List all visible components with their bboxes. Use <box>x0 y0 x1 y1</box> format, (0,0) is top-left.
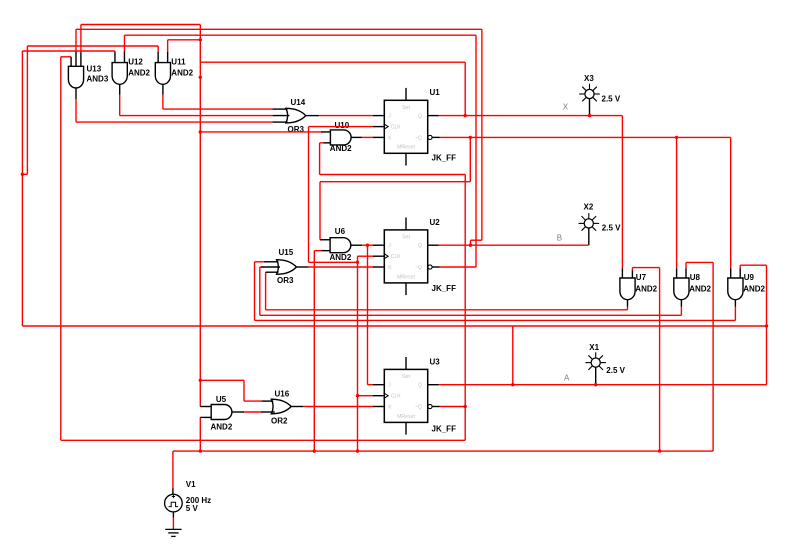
wire net ~Q1 drop to U8 input 1 <box>676 137 678 268</box>
svg-text:AND2: AND2 <box>211 423 233 432</box>
wire U7 output to U15 input 3 <box>627 307 629 310</box>
junction Q3 x22 with U11 branch <box>21 173 24 176</box>
pin stub U10 input 1 <box>321 131 331 133</box>
wire net Q3 long horizontal y326 <box>22 325 766 327</box>
pin stub U9 input 2 <box>739 268 741 278</box>
svg-text:Set: Set <box>402 374 411 380</box>
svg-text:X2: X2 <box>584 203 594 212</box>
wire net Q3 branch vertical x27 <box>26 46 28 174</box>
pin Reset (bottom) of U3 <box>405 422 407 434</box>
wire net Q1 drop to U7 input 1 <box>621 116 623 269</box>
gate body U6 AND2 <box>330 238 351 253</box>
pin J stub of U2 <box>373 244 384 246</box>
svg-text:2.5 V: 2.5 V <box>606 366 625 375</box>
wire clock net: V1 riser <box>172 451 174 488</box>
gate body U13 AND3 <box>68 66 83 88</box>
pin stub V1 negative terminal <box>172 512 174 518</box>
wire clock rail y451 <box>173 450 713 452</box>
wire U6 output to U2 J <box>362 244 373 246</box>
svg-text:U9: U9 <box>744 273 755 282</box>
pin stub U5 input 2 <box>200 416 211 418</box>
svg-text:U16: U16 <box>275 390 290 399</box>
gate body U14 OR3 <box>286 108 306 123</box>
wire U5 output to U16 input 2 <box>244 411 261 413</box>
lamp X1 lead wire <box>595 367 597 385</box>
pin Q stub of U1 <box>428 115 439 117</box>
svg-text:U14: U14 <box>291 98 306 107</box>
svg-text:AND2: AND2 <box>171 69 193 78</box>
wire net ~Q1 drop x470 to y182 <box>469 137 471 181</box>
wire V1 to ground <box>172 518 174 529</box>
svg-text:U12: U12 <box>128 57 143 66</box>
wire net ~Q1: U1.~Q line to U8/U9 <box>440 136 731 138</box>
pin Reset (bottom) of U1 <box>405 153 407 165</box>
pin Q stub of U3 <box>428 384 439 386</box>
svg-text:U15: U15 <box>279 248 294 257</box>
V1 square wave glyph <box>169 502 179 506</box>
wire U8 output to U15 input 2 <box>680 307 682 316</box>
wire net ~Q3 riser x465 (from U10 input 2) down to rail <box>464 175 466 441</box>
svg-text:AND3: AND3 <box>87 75 109 84</box>
gate body U9 AND2 <box>728 278 743 300</box>
junction clock rail at U7 input 2 <box>658 449 661 452</box>
svg-text:U7: U7 <box>636 273 647 282</box>
svg-text:MReset: MReset <box>397 274 415 280</box>
indicator lamp X2 2.5V <box>584 219 593 228</box>
wire net Q3 drop into U11 input 1 <box>157 46 159 52</box>
svg-text:A: A <box>564 374 570 383</box>
pin stub U12 input 1 <box>114 52 116 63</box>
wire net ~Q1 horizontal y182 <box>320 181 470 183</box>
wire net Q3 branch jog to x27 <box>22 173 27 175</box>
svg-text:2.5 V: 2.5 V <box>602 224 621 233</box>
pin Set (top) of U3 <box>405 357 407 369</box>
pin stub U11 input 2 <box>167 52 169 63</box>
wire net Q2: U2.Q line to lamp X2 <box>439 244 589 246</box>
svg-text:X1: X1 <box>589 343 599 352</box>
svg-text:U8: U8 <box>690 273 701 282</box>
svg-text:Set: Set <box>402 235 411 241</box>
junction ~Q1 at x470 (return path) <box>469 136 472 139</box>
wire net Q2 jog up <box>470 240 472 245</box>
wire net Q3 y46 to U11 input 1 <box>27 45 158 47</box>
wire clock hook U8 input 2 <box>686 261 713 263</box>
svg-text:U3: U3 <box>430 357 441 366</box>
junction V200 y40 (U11 input 2 tap) <box>199 38 202 41</box>
svg-text:V1: V1 <box>186 480 196 489</box>
wire clock hook U7 input 2 <box>632 267 659 269</box>
pin stub U12 output <box>119 84 121 94</box>
svg-text:CLK: CLK <box>391 125 401 131</box>
pin stub U15 input 2 <box>261 266 280 268</box>
pin stub U16 input 1 <box>262 400 274 402</box>
svg-text:X3: X3 <box>584 74 594 83</box>
wire U14 output to U1 J <box>306 115 319 117</box>
wire net ~Q3 riser to U10 input 2 <box>319 143 321 175</box>
svg-text:CLK: CLK <box>391 254 401 260</box>
wire U10 output to U1 K <box>362 136 373 138</box>
wire U12 output to U14 input 2 <box>119 95 121 116</box>
pin stub U8 input 1 <box>676 268 678 278</box>
wire net Q1: U1.Q output line to lamp X3 and U7 <box>439 115 623 117</box>
svg-text:AND2: AND2 <box>330 144 352 153</box>
pin CLK stub of U2 <box>373 255 384 257</box>
junction V200 y132 (U10 input 1 tap) <box>199 130 202 133</box>
svg-text:AND2: AND2 <box>743 284 765 293</box>
svg-text:AND2: AND2 <box>689 284 711 293</box>
svg-text:U13: U13 <box>87 65 102 74</box>
CLK edge triangle of U2 <box>384 253 389 259</box>
wire clock into U3 CLK <box>358 395 374 397</box>
wire U6 output drop to U3 J <box>367 245 369 385</box>
pin stub U13 input 2 <box>75 51 77 66</box>
junction Q1 at riser x465 <box>464 114 467 117</box>
pin stub U6 input 1 <box>320 239 330 241</box>
pin stub U15 input 1 <box>264 261 278 263</box>
junction clock x357 at U3 CLK <box>356 394 359 397</box>
svg-text:~Q: ~Q <box>415 135 422 141</box>
pin K stub of U2 <box>373 266 384 268</box>
gate body U7 AND2 <box>620 278 635 300</box>
indicator lamp X1 2.5V <box>591 358 600 367</box>
svg-text:JK_FF: JK_FF <box>432 424 457 433</box>
pin K stub of U1 <box>373 136 384 138</box>
wire net ~Q1 drop to U6 input 1 <box>319 182 321 240</box>
pin ~Q bubble and stub of U1 <box>428 135 432 139</box>
wire U15 output to U2 K <box>308 266 373 268</box>
pin stub U7 input 2 <box>631 271 633 279</box>
pin Set (top) of U2 <box>405 218 407 230</box>
pin stub U7 output <box>627 300 629 307</box>
pin Q stub of U2 <box>428 244 439 246</box>
indicator lamp X3 2.5V <box>585 89 594 98</box>
wire net ~Q2 drop into U12 input 2 <box>123 35 125 51</box>
wire clock vertical x357 (FF clocks) <box>357 256 359 451</box>
svg-text:AND2: AND2 <box>635 284 657 293</box>
junction V200 y380 (U16 input 1 tap) <box>199 379 202 382</box>
junction Q3 at lamp X1 <box>594 383 597 386</box>
wire net ~Q2 top horizontal y35 to U12 input 2 <box>124 34 476 36</box>
wire net Q3 riser x766 up to U9 input 2 hook <box>766 265 768 385</box>
wire net Q1 long vertical V200 x200 <box>199 25 201 407</box>
svg-text:OR2: OR2 <box>271 416 288 425</box>
pin stub U14 input 3 <box>273 121 288 123</box>
svg-text:U11: U11 <box>171 57 186 66</box>
wire clock riser x308 to U1 CLK <box>308 127 310 263</box>
wire net Q1 riser x465 up to y62 <box>464 62 466 115</box>
pin stub U6 input 2 <box>322 250 331 252</box>
svg-text:U1: U1 <box>430 88 441 97</box>
pin ~Q bubble and stub of U2 <box>428 265 432 269</box>
wire U13 output to U14 input 3 <box>75 99 77 122</box>
pin stub U10 input 2 <box>324 142 331 144</box>
wire net Q2 drop into U13 input 2 <box>75 29 77 51</box>
pin stub U16 output <box>291 406 303 408</box>
svg-text:U6: U6 <box>335 227 346 236</box>
pin stub U14 input 1 <box>273 108 288 110</box>
wire net Q2 riser x482 to top <box>481 29 483 240</box>
flip-flop U3 JK_FF body <box>384 369 427 422</box>
gate body U12 AND2 <box>112 63 127 85</box>
junction ~Q1 at U8 input 1 riser <box>675 136 678 139</box>
gate body U5 AND2 <box>211 405 232 420</box>
flip-flop U1 JK_FF body <box>384 100 427 153</box>
pin stub U12 input 2 <box>123 52 125 63</box>
pin CLK stub of U1 <box>373 126 384 128</box>
junction clock rail at U6 input 2 <box>313 449 316 452</box>
pin stub U8 output <box>680 300 682 307</box>
pin stub V1 positive terminal <box>172 489 174 495</box>
svg-text:U2: U2 <box>430 218 441 227</box>
CLK edge triangle of U3 <box>384 393 389 399</box>
svg-text:5 V: 5 V <box>186 504 199 513</box>
gate body U11 AND2 <box>155 63 170 85</box>
voltage source V1 (200 Hz 5 V clock) <box>165 494 183 512</box>
junction Q2 jog riser <box>469 244 472 247</box>
junction Q3 riser with y326 line <box>765 324 768 327</box>
pin J stub of U1 <box>373 115 384 117</box>
flip-flop U2 JK_FF body <box>384 230 427 283</box>
svg-text:2.5 V: 2.5 V <box>602 95 621 104</box>
pin stub U7 input 1 <box>621 268 623 278</box>
wire net Q3 drop into U12 input 1 <box>114 50 116 53</box>
wire clock drop U6 input 2 <box>313 251 315 451</box>
svg-text:MReset: MReset <box>397 414 415 420</box>
junction Q1 at lamp X3 <box>588 114 591 117</box>
wire net Q3 riser x513 from y326 <box>512 326 514 385</box>
pin Reset (bottom) of U2 <box>405 283 407 295</box>
svg-text:X: X <box>563 103 569 112</box>
svg-text:U5: U5 <box>216 395 227 404</box>
pin stub U9 input 1 <box>730 268 732 278</box>
svg-text:AND2: AND2 <box>128 69 150 78</box>
pin stub U5 output <box>232 411 244 413</box>
svg-text:U10: U10 <box>335 121 350 130</box>
pin stub U14 input 2 <box>273 115 290 117</box>
lamp X2 lead wire <box>588 228 590 245</box>
gate body U16 OR2 <box>271 399 291 414</box>
wire U11 output to U14 input 1 <box>162 95 164 110</box>
svg-text:B: B <box>557 234 562 243</box>
pin stub U10 output <box>351 136 362 138</box>
junction clock x357 at y262 <box>356 261 359 264</box>
wire net Q3: U3.Q line to lamp X1 and U9 <box>439 384 767 386</box>
wire net ~Q3: U3.~Q stub to riser x465 <box>440 406 466 408</box>
svg-text:~Q: ~Q <box>415 265 422 271</box>
gate body U8 AND2 <box>674 278 689 300</box>
wire net ~Q3 horizontal y174 to U10 input 2 <box>320 174 466 176</box>
junction ~Q3 on riser x465 <box>464 405 467 408</box>
junction Q3 at riser x513 <box>511 383 514 386</box>
wire U16 output to U3 K <box>303 406 373 408</box>
pin K stub of U3 <box>373 406 384 408</box>
pin ~Q bubble and stub of U3 <box>428 404 432 408</box>
CLK edge triangle of U1 <box>384 124 389 130</box>
pin stub U8 input 2 <box>685 268 687 278</box>
pin stub U11 input 1 <box>157 52 159 63</box>
wire net Q1 horizontal y62 to V200 <box>200 61 465 63</box>
svg-text:Q: Q <box>418 383 422 389</box>
wire net Q3 left vertical x22 up <box>21 51 23 326</box>
gate body U10 AND2 <box>330 130 351 145</box>
svg-text:~Q: ~Q <box>415 405 422 411</box>
svg-text:JK_FF: JK_FF <box>432 154 457 163</box>
pin stub U13 input 1 <box>70 57 72 67</box>
pin stub U9 output <box>734 300 736 307</box>
lamp X3 lead wire <box>589 99 591 116</box>
wire clock into U1 CLK <box>309 126 374 128</box>
gate body U15 OR3 <box>277 260 297 275</box>
svg-text:Q: Q <box>418 114 422 120</box>
ground symbol <box>165 528 181 536</box>
pin J stub of U3 <box>373 384 384 386</box>
pin stub U15 output <box>296 266 308 268</box>
wire net ~Q2 riser x476 to top <box>475 35 477 267</box>
wire clock link y262 to U1 CLK riser <box>309 261 358 263</box>
pin CLK stub of U3 <box>373 395 384 397</box>
wire net Q1 y132 to U10 input 1 <box>200 131 321 133</box>
junction clock rail at FF clock riser <box>356 449 359 452</box>
junction V200 y77 <box>199 76 202 79</box>
svg-text:CLK: CLK <box>391 394 401 400</box>
junction U6 output branch to U3 J <box>366 244 369 247</box>
wire net Q3 hook into U9 input 2 <box>740 264 766 266</box>
svg-text:Set: Set <box>402 105 411 111</box>
wire net Q1 y40 to U11 input 2 <box>168 39 201 41</box>
svg-text:Q: Q <box>418 243 422 249</box>
wire net Q2 top horizontal y29 to U13 input 2 <box>76 28 482 30</box>
pin stub U15 input 3 <box>266 271 279 273</box>
wire clock to U2 CLK <box>358 255 374 257</box>
wire net Q1 drop into U13 input 3 <box>80 25 82 53</box>
V1 plus sign <box>172 495 175 498</box>
wire net Q1 to U16 input 1 (y380 jog) <box>200 379 244 381</box>
wire net ~Q3 rail y440 <box>61 439 465 441</box>
wire net Q1 top horizontal y24.5 to U13 input 3 <box>81 24 200 26</box>
svg-text:MReset: MReset <box>397 145 415 151</box>
wire net Q3 y51 to U12 input 1 <box>22 50 115 52</box>
pin Set (top) of U1 <box>405 88 407 100</box>
svg-text:JK_FF: JK_FF <box>432 284 457 293</box>
wire net ~Q3 jog to U13 input 1 <box>61 56 71 58</box>
svg-text:OR3: OR3 <box>277 276 294 285</box>
wire net ~Q3 left vertical x61 up to U13 input 1 <box>60 57 62 441</box>
pin stub U11 output <box>162 84 164 94</box>
wire U9 output to U15 input 1 <box>734 307 736 321</box>
pin stub U16 input 2 <box>261 411 275 413</box>
junction clock rail at U5 input 2 <box>199 449 202 452</box>
pin stub U5 input 1 (net Q1 bottom of V200) <box>200 406 211 408</box>
svg-text:AND2: AND2 <box>330 253 352 262</box>
pin stub U13 input 3 <box>80 52 82 66</box>
pin stub U6 output <box>351 244 362 246</box>
wire net ~Q1 drop to U9 input 1 <box>730 137 732 268</box>
wire net ~Q2: U2.~Q to riser x476 <box>440 266 477 268</box>
wire clock drop U5 input 2 <box>199 417 201 451</box>
pin stub U13 output <box>75 88 77 99</box>
